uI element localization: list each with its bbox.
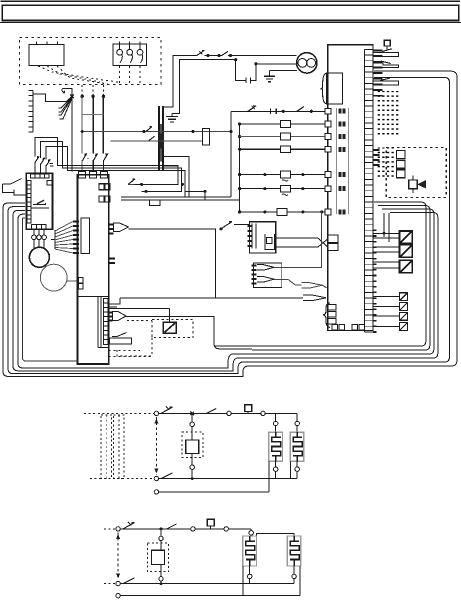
- box B inner module: [81, 218, 89, 254]
- fusible link bars: [158, 106, 160, 171]
- knot fan lead 1: [59, 97, 72, 108]
- motor terminal 1: [32, 235, 37, 240]
- comb tooth 5: [29, 110, 34, 112]
- knot down wire: [71, 97, 73, 172]
- main switch blade top: [197, 50, 205, 55]
- sensor wire 3: [373, 315, 400, 317]
- harness loop 2: [8, 78, 450, 374]
- ladder lower teeth: [373, 230, 377, 332]
- c2 rail blade 2: [167, 524, 177, 529]
- c1 terminal top: [154, 411, 158, 415]
- c2 bottom rail 2: [116, 594, 120, 598]
- row 4 resistor: [280, 171, 290, 178]
- ECU main box: [328, 45, 373, 331]
- box A internal switch: [37, 200, 44, 204]
- bus node r2: [238, 135, 241, 138]
- bus node r6: [238, 210, 241, 213]
- battery feed wire 1: [163, 55, 197, 107]
- injector wire 2b: [373, 251, 400, 253]
- c1 rail circle mid: [227, 411, 231, 415]
- long link wire 1: [121, 196, 231, 198]
- c2 terminal top: [116, 527, 120, 531]
- motor terminal 2: [37, 235, 42, 240]
- c1 heater box 2: [290, 432, 304, 461]
- dotted harness area lower: [376, 148, 395, 178]
- c1 bottom rail 1: [154, 476, 158, 480]
- title bar top rule: [1, 0, 461, 2]
- indicator lamp: [297, 53, 317, 73]
- contact symbol: [236, 60, 246, 81]
- left connector comb spine: [32, 91, 34, 133]
- bars lower taps: [163, 156, 189, 197]
- long bottom wire: [130, 229, 306, 298]
- nested loop wire 1: [35, 138, 178, 185]
- c2 bottom rail 1: [116, 581, 120, 585]
- control unit pin 1: [36, 42, 38, 45]
- box B top pin 3: [100, 172, 107, 179]
- c2 rail circle mid: [191, 527, 195, 531]
- c1 heater 2 riser: [296, 413, 298, 421]
- relay switch blade above: [221, 222, 232, 229]
- c1 heater 2 bottom: [296, 461, 298, 467]
- row 2 wire: [240, 136, 328, 138]
- ignition switch blade A2: [41, 158, 45, 165]
- wire nodes top run: [206, 54, 209, 57]
- bottom switch blade: [112, 333, 127, 337]
- title bar box: [2, 5, 459, 20]
- dashed row b: [109, 356, 153, 358]
- injector wire 2a: [373, 246, 400, 248]
- c2 node: [160, 527, 163, 530]
- sensor wire 4: [373, 326, 400, 328]
- c2 relay line: [160, 529, 162, 584]
- ECU pin box lower: [328, 243, 338, 250]
- injector wire 3a: [373, 261, 400, 263]
- sensor wire 1: [373, 296, 400, 298]
- harness stub left inner: [23, 218, 78, 361]
- row 3 resistor: [280, 146, 290, 153]
- external switch lever left: [3, 179, 22, 185]
- box B fuse 1: [99, 184, 104, 190]
- battery feed wire 2: [172, 60, 236, 114]
- feed node 2: [91, 95, 94, 98]
- box B top pin 1: [79, 172, 86, 179]
- box B lower comb cells: [104, 298, 109, 344]
- ECU inner ladder rail: [364, 50, 366, 333]
- switch blade top right 2: [381, 61, 391, 64]
- fork pair 2: [257, 277, 274, 283]
- actuator square 2: [397, 160, 406, 168]
- row 4 wire: [240, 174, 328, 176]
- lamp wire mid: [256, 63, 297, 65]
- c1 link arrows dashed: [155, 417, 157, 475]
- bus node r1: [238, 122, 241, 125]
- series component box: [202, 129, 209, 145]
- ECU ladder bottom: [365, 331, 374, 333]
- fork 3: [301, 283, 322, 289]
- comb tooth 4: [29, 105, 34, 107]
- fuse symbol top right: [384, 40, 390, 46]
- box B output fork upper: [109, 225, 114, 234]
- ECU fuse pairs: [338, 109, 345, 215]
- comb tooth 6: [29, 116, 34, 118]
- row 2 resistor: [280, 133, 290, 140]
- ECU bottom pins: [332, 324, 338, 330]
- terminal bar 3: [373, 81, 398, 85]
- lower harness wire from comb: [118, 317, 426, 349]
- ECU right teeth top group: [373, 51, 383, 96]
- injector X-box 2: [400, 245, 413, 258]
- glow plug 3: [137, 49, 143, 55]
- c1 rail blade 1: [161, 407, 173, 413]
- riser to contact row: [230, 111, 232, 197]
- harness loop 3: [13, 210, 438, 370]
- c2 heater 2 drop to rail2: [299, 566, 301, 596]
- alternator lead: [67, 280, 78, 282]
- dashed row a: [109, 350, 141, 352]
- c1 rail circle right: [261, 411, 265, 415]
- dashed leads from control unit: [38, 66, 118, 82]
- c2 heater bridge: [257, 534, 295, 536]
- feed node 1: [81, 95, 84, 98]
- row 5 wire: [240, 188, 328, 190]
- row 6 resistor: [277, 209, 287, 216]
- box B inner divider: [78, 295, 109, 297]
- title bar bottom rule: [0, 22, 461, 24]
- relay pin teeth: [248, 226, 253, 246]
- alternator: [40, 264, 67, 291]
- box B fuse 2: [105, 184, 110, 190]
- harness loop 5: [252, 206, 430, 351]
- fork2 wire: [274, 279, 301, 284]
- sense wire lower: [110, 140, 202, 142]
- c1 rail blade 2: [206, 409, 216, 414]
- box B lower comb housing: [97, 296, 99, 347]
- ignition switch blade A1: [35, 156, 39, 163]
- box B comb feed down: [108, 307, 170, 309]
- knot fan lead 4: [60, 98, 73, 119]
- relay coil feed from box B fork: [129, 229, 216, 298]
- lower switch row blade: [128, 179, 135, 185]
- box B fuse 4: [105, 196, 110, 202]
- terminal bar 2: [373, 63, 398, 67]
- connector box A: [26, 173, 52, 229]
- row 5 resistor: [280, 185, 290, 192]
- c2 heater box 1: [243, 536, 257, 566]
- sensor X-box 2: [400, 303, 408, 311]
- link wire upper: [82, 114, 103, 116]
- solenoid valve: [409, 180, 418, 189]
- ECU left pin squares: [325, 108, 331, 114]
- c1 heater 1 riser: [275, 413, 277, 421]
- distribution bus vertical: [239, 124, 241, 212]
- knot fan lead 2: [59, 97, 72, 112]
- box B output teeth mid: [109, 258, 115, 262]
- c2 heater box 2: [287, 536, 301, 566]
- diode X-box: [163, 322, 176, 333]
- feed drop 1: [383, 213, 385, 237]
- contact row blade 2: [297, 107, 304, 112]
- harness knot hook: [62, 88, 72, 96]
- comb drop wire: [169, 308, 171, 322]
- glow plug 1: [117, 49, 123, 55]
- comb tooth 8: [29, 126, 34, 128]
- contact row blade 1: [248, 106, 256, 112]
- c2 dashed lead-in: [104, 528, 116, 530]
- fork 4 on long wire: [303, 295, 326, 301]
- dashed drop: [117, 338, 152, 356]
- glow relay box: [250, 222, 276, 253]
- comb tooth 2: [29, 95, 34, 97]
- ECU inner bus lines: [335, 108, 337, 214]
- lower switch row line 2: [145, 190, 148, 193]
- injector wire 1a: [373, 232, 400, 234]
- switch blade top right 1: [382, 49, 392, 52]
- starter motor: [29, 247, 49, 267]
- ECU sub-box with brace: [327, 73, 343, 104]
- actuator square 1: [397, 151, 406, 159]
- box B left teeth: [73, 222, 79, 254]
- harness knot node: [70, 95, 74, 99]
- glow plug 2: [127, 49, 133, 55]
- motor terminal 3: [42, 235, 47, 240]
- long link wire 2: [121, 199, 240, 201]
- row 6 wire: [240, 211, 328, 213]
- harness loop outermost: [3, 71, 457, 376]
- lower switch row line 1: [128, 183, 135, 185]
- feed drop 2: [388, 213, 390, 242]
- box B top pin 2: [89, 172, 96, 179]
- box A top pins: [31, 174, 36, 178]
- c1 heater edge drops: [268, 461, 270, 492]
- c2 heater 2 bottom: [293, 566, 295, 574]
- c2 heater 1 bottom: [249, 566, 251, 574]
- bus node r3: [238, 148, 241, 151]
- ground at bars: [171, 113, 173, 116]
- ECU pin box upper: [328, 235, 338, 242]
- contact gap: [271, 109, 277, 115]
- comb tooth 7: [29, 121, 34, 123]
- dashed enclosure around diode: [152, 319, 193, 337]
- dashed leads from glow plugs: [119, 66, 121, 85]
- bus node r4: [238, 173, 241, 176]
- actuator square 3: [397, 170, 406, 178]
- wire comb to harness knot: [33, 94, 72, 101]
- comb tooth 3: [29, 100, 34, 102]
- dashed actuator box: [386, 148, 446, 198]
- c2 link arrows dashed: [117, 533, 119, 580]
- sensor X-box 1: [400, 293, 408, 301]
- lamp ground wire: [270, 70, 298, 72]
- switch blade feed 1: [82, 154, 87, 162]
- dotted harness area upper: [376, 91, 399, 137]
- injector X-box 1: [400, 231, 413, 244]
- injector X-box 3: [400, 260, 413, 273]
- fork pair 1: [257, 265, 274, 271]
- switch blade feed 2: [93, 154, 98, 162]
- feed node 3: [102, 95, 105, 98]
- box A bottom pins: [32, 224, 37, 228]
- c1 heater box 1: [269, 432, 283, 461]
- relay outputs to ECU: [276, 238, 328, 247]
- harness loop 4: [18, 209, 434, 368]
- c1 relay line: [191, 413, 193, 478]
- dashed stubs to harness nodes: [81, 85, 83, 95]
- switch blade on sense wire: [146, 127, 152, 132]
- sensor X-box 3: [400, 312, 408, 320]
- ECU ladder rungs: [365, 50, 374, 333]
- fork1 wire to row6 riser: [274, 212, 322, 267]
- dashed link fork to diode: [127, 320, 152, 322]
- c2 top rail: [120, 528, 251, 530]
- ECU lower pins: [328, 305, 337, 311]
- box A pin block top-right: [47, 181, 52, 186]
- bus node r5: [238, 187, 241, 190]
- harness loop 6: [215, 202, 426, 346]
- fork 3 tail: [322, 285, 327, 288]
- box B fuse 3: [99, 196, 104, 202]
- dashed enclosure (engine pre-heat group): [20, 38, 162, 85]
- c2 rail circle right: [224, 527, 228, 531]
- sense wire upper: [83, 131, 231, 133]
- sensor wire 2: [373, 305, 400, 307]
- nested loop wire 2: [41, 142, 182, 192]
- comb tooth 1: [29, 90, 34, 92]
- injector wire 3b: [373, 267, 400, 269]
- c2 relay coil: [151, 550, 164, 564]
- fuse-relay box B body: [78, 175, 109, 364]
- box A left pins: [27, 181, 31, 185]
- bottom flat box: [110, 338, 132, 344]
- box B side pins lower: [78, 278, 83, 284]
- box B pair to bus: [108, 298, 120, 304]
- injector wire 1b: [373, 237, 400, 239]
- c2 fuse square: [207, 519, 214, 526]
- row 1 resistor: [280, 121, 290, 128]
- glow plug box: [113, 44, 147, 66]
- feed wire 3: [102, 96, 104, 153]
- ECU right teeth mid group: [373, 150, 380, 165]
- sensor X-box 4: [400, 323, 408, 331]
- c1 relay coil: [186, 440, 199, 454]
- ignition switch blade A3: [46, 159, 50, 166]
- nested loop wire 3: [46, 147, 185, 197]
- control unit box: [29, 45, 64, 66]
- c1 top rail: [159, 412, 298, 414]
- box B lower fork: [109, 313, 113, 321]
- control unit pin 2: [46, 42, 48, 45]
- inline fuse on link wire: [150, 200, 160, 206]
- terminal bar 1: [373, 52, 398, 56]
- knot fan lead 3: [59, 98, 72, 115]
- cable bundle dashed left: [101, 415, 112, 479]
- c1 node x: [190, 412, 194, 416]
- c2 rail blade 1: [123, 523, 135, 529]
- ECU lower pin brace: [323, 303, 330, 328]
- c1 heater 1 bottom: [275, 461, 277, 467]
- feed wire 1: [81, 96, 83, 153]
- c1 bottom rail 2: [154, 490, 158, 494]
- relay armature: [265, 234, 275, 250]
- harness fan into box B: [54, 230, 56, 249]
- contact row to ECU: [231, 110, 328, 112]
- row 3 wire: [240, 148, 328, 150]
- row 1 wire: [240, 123, 328, 125]
- ground at lamp: [269, 71, 271, 77]
- control unit pin 3: [57, 42, 59, 45]
- signal connector w/ forks: [254, 263, 282, 288]
- c2 heater 1 feed: [250, 529, 252, 531]
- c1 fuse square: [245, 405, 252, 412]
- feed wire 2: [92, 96, 94, 153]
- switch blade feed 3: [103, 154, 108, 162]
- contact blade 2 top: [222, 51, 228, 55]
- switch blade on lower sense wire: [149, 136, 155, 141]
- comb tooth 9: [29, 131, 34, 133]
- switch blade top right 3: [380, 78, 390, 81]
